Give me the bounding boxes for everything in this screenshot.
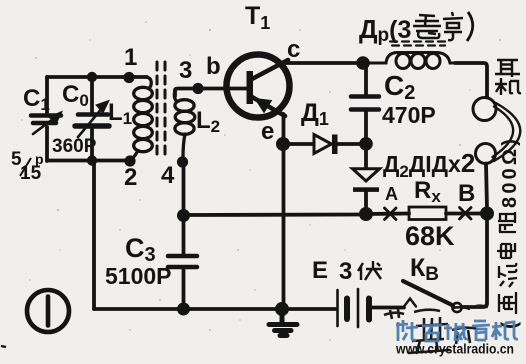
- node collector/C2/choke junction: [356, 56, 370, 70]
- label yin: [472, 321, 490, 341]
- svg-text:800Ω): 800Ω): [499, 136, 521, 208]
- svg-text:b: b: [206, 53, 221, 80]
- svg-text:68K: 68K: [405, 221, 455, 251]
- stray mark bottom left: [1, 346, 6, 347]
- wire right rail down: [462, 214, 487, 308]
- terminal A cross: [385, 208, 397, 220]
- label zu glyph: [498, 212, 516, 232]
- wire tank left edge (C1 branch): [45, 77, 49, 161]
- svg-text:360P: 360P: [52, 136, 97, 157]
- svg-text:4: 4: [161, 162, 175, 189]
- rotated side note (DC resistance 800 ohm): [497, 136, 521, 329]
- label paren close of Dr: [467, 12, 473, 41]
- node junction C0 bottom: [87, 155, 97, 165]
- earphone: [473, 98, 496, 121]
- transformer core (dashed): [157, 62, 165, 155]
- label shou: [444, 323, 468, 341]
- switch KB: [452, 303, 461, 312]
- svg-text:1: 1: [124, 44, 137, 71]
- label ji (machine): [495, 78, 521, 95]
- svg-text:e: e: [261, 118, 274, 145]
- node 4 junction: [177, 156, 188, 167]
- svg-text:p: p: [35, 151, 44, 167]
- svg-text:3: 3: [179, 57, 192, 84]
- inductor Dr (choke): [369, 53, 458, 69]
- inductor L2 (transformer secondary): [174, 90, 194, 158]
- wire choke to right rail: [455, 63, 487, 98]
- label kuang: [396, 320, 418, 341]
- watermark blue text: [396, 320, 518, 341]
- svg-text:c: c: [287, 36, 300, 63]
- node 2 junction: [124, 155, 135, 166]
- resistor Rx: [409, 207, 446, 220]
- label dian glyph: [497, 243, 515, 258]
- svg-text:3: 3: [339, 258, 352, 285]
- label er (ear): [495, 60, 520, 77]
- capacitor C0 (variable) 360P: [90, 77, 94, 160]
- node 1 junction: [123, 72, 134, 83]
- svg-text:A: A: [385, 184, 398, 204]
- svg-text:B: B: [458, 180, 475, 207]
- node D2 bottom junction: [359, 207, 373, 221]
- wire tank top rail: [47, 75, 147, 79]
- node C3 bottom junction: [177, 303, 190, 316]
- svg-text:www.crystalradio.cn: www.crystalradio.cn: [395, 342, 514, 357]
- capacitor C1 (variable): [31, 116, 61, 124]
- label hao (milli) of Dr: [413, 15, 441, 38]
- diode D2: [364, 144, 368, 168]
- node 3 junction: [192, 83, 203, 94]
- inductor L1 (transformer primary): [129, 77, 152, 161]
- node B junction: [480, 207, 494, 221]
- label liu glyph: [499, 263, 517, 287]
- wire tank bottom rail: [47, 159, 131, 163]
- capacitor C2 470P: [364, 63, 368, 95]
- wire collector: [286, 61, 363, 65]
- wire L2 top to base: [175, 89, 247, 97]
- svg-text:5100P: 5100P: [105, 263, 172, 289]
- label ji2: [492, 322, 518, 340]
- terminal B cross: [460, 208, 472, 220]
- node emitter junction: [276, 137, 290, 151]
- wire left riser: [92, 161, 96, 309]
- node junction C0 top: [87, 72, 97, 82]
- figure number circle 1: [27, 290, 69, 332]
- svg-text:2: 2: [124, 164, 137, 191]
- watermark scribbles (black annotation): [384, 306, 488, 354]
- svg-text:E: E: [312, 257, 328, 284]
- node C2 bottom junction: [359, 137, 373, 151]
- svg-text:470P: 470P: [382, 102, 436, 128]
- wire emitter vertical: [282, 114, 286, 309]
- transistor T1: [227, 55, 290, 118]
- wire earphone to B: [486, 164, 487, 209]
- label heng (henry) of Dr: [443, 12, 463, 40]
- diode D1: [283, 142, 313, 146]
- label zhi glyph: [497, 212, 517, 314]
- choke core dashes: [390, 42, 447, 46]
- label fu (volt) of E 3V: [358, 261, 382, 280]
- hand drawn CJK glyphs: [358, 12, 521, 280]
- node C3/mid-rail junction: [177, 209, 190, 222]
- battery E: [94, 307, 336, 311]
- ground: [275, 302, 289, 316]
- capacitor C3 5100P: [182, 162, 186, 253]
- label shi: [422, 325, 442, 341]
- wire mid rail: [184, 213, 367, 217]
